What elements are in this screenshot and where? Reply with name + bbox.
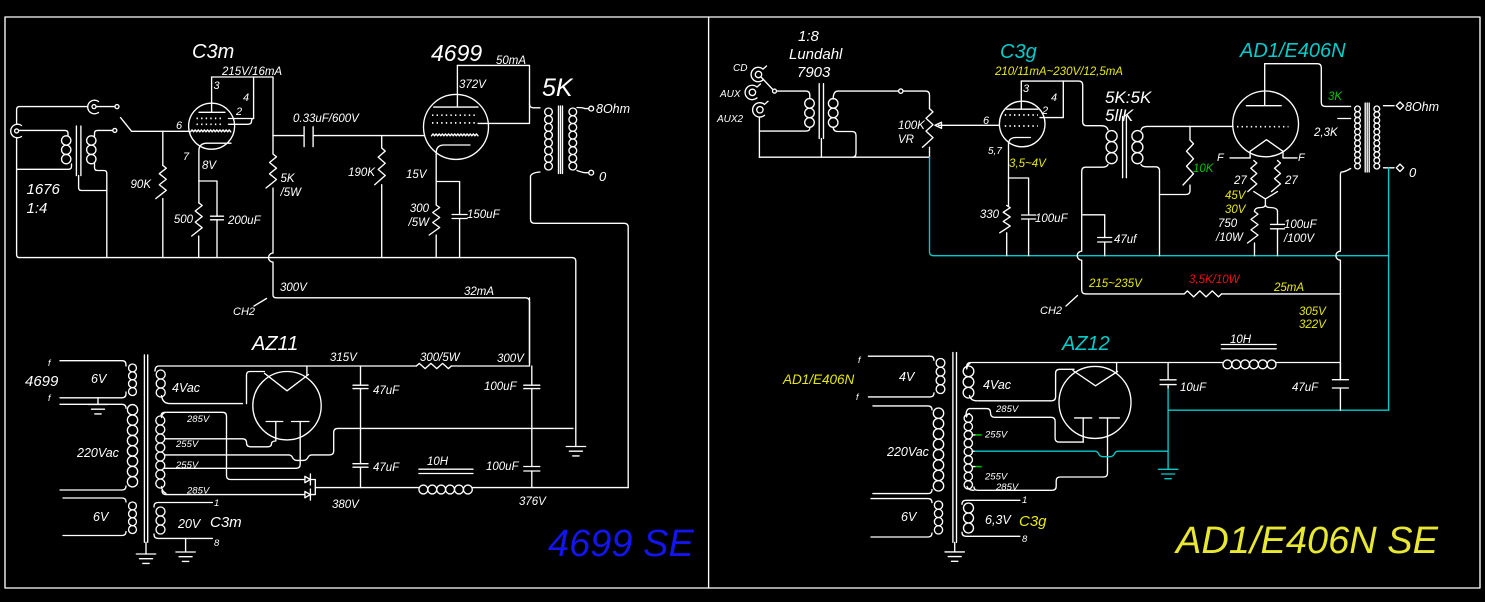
resistor R11 27 right (1272, 161, 1281, 192)
wire left jack down to ground rail (17, 138, 20, 258)
wire plate top run 215V (212, 76, 273, 78)
svg-text:220Vac: 220Vac (76, 446, 120, 460)
capacitor C11 10uF (1160, 363, 1176, 411)
choke L1 10H (419, 469, 473, 494)
svg-text:0: 0 (599, 169, 607, 184)
T2 secondary top lead (833, 91, 898, 99)
selector contact (773, 89, 777, 93)
terminal diamond 0 (1396, 164, 1403, 171)
capacitor C5 47uF lower (353, 428, 368, 487)
capacitor C2 200uF (199, 181, 224, 258)
wire plate to coupling cap (273, 135, 304, 137)
svg-text:100uF: 100uF (484, 381, 518, 393)
wire to VR top (903, 91, 930, 109)
AZ12 filament left leg from 4Vac (978, 369, 1074, 401)
svg-text:47uF: 47uF (373, 385, 400, 397)
tube V4 C3g envelope (999, 101, 1045, 147)
wire HT center tap to ground (hops stem) (166, 428, 573, 460)
svg-text:AZ11: AZ11 (251, 333, 298, 355)
svg-text:322V: 322V (1299, 319, 1327, 331)
svg-text:500: 500 (174, 214, 194, 226)
tube V5 filament (1250, 140, 1283, 158)
tube V1 plate (199, 77, 225, 112)
resistor R5 300/5W cathode (429, 205, 440, 258)
tube V1 screen lead pin 2 (229, 77, 254, 119)
T3 secondary top lead to AD1 grid (1141, 126, 1233, 130)
B+ rail after dropper (1222, 293, 1341, 295)
svg-text:CH2: CH2 (1040, 305, 1062, 317)
svg-text:8V: 8V (202, 160, 217, 172)
svg-text:215V/16mA: 215V/16mA (221, 66, 282, 78)
PT1 winding 220Vac primary (60, 404, 138, 490)
tube V2 control grid wavy (432, 134, 478, 136)
svg-text:255V: 255V (984, 430, 1009, 441)
svg-text:/5W: /5W (408, 217, 431, 229)
cyan node line right (1168, 409, 1389, 411)
choke L2 10H right (1221, 345, 1276, 369)
AZ11 anode1 stem (275, 422, 277, 439)
svg-text:C3g: C3g (1000, 41, 1037, 63)
ground symbol 20V winding (176, 538, 195, 561)
svg-text:210/11mA~230V/12,5mA: 210/11mA~230V/12,5mA (994, 66, 1123, 78)
B+ rail 215~235V (1086, 293, 1185, 295)
svg-text:3,5~4V: 3,5~4V (1009, 158, 1047, 170)
filament line left F (1217, 152, 1250, 164)
svg-text:AD1/E406N SE: AD1/E406N SE (1174, 520, 1439, 562)
T3 secondary winding (1132, 131, 1143, 142)
HT 285V top tap to diode1 (161, 412, 304, 479)
T2 secondary (828, 99, 838, 109)
svg-text:305V: 305V (1299, 306, 1327, 318)
svg-text:CD: CD (733, 63, 747, 74)
wire top jack to switch contact (96, 106, 114, 108)
svg-text:4699: 4699 (25, 373, 59, 390)
svg-text:255V: 255V (175, 460, 200, 471)
tube V2 4699 envelope (424, 94, 489, 159)
svg-text:10K: 10K (1193, 163, 1215, 175)
AZ11 filament left leg wiring from 4Vac (247, 372, 265, 404)
resistor R1 90K (156, 131, 167, 257)
tube V2 cathode (436, 145, 470, 205)
svg-text:376V: 376V (519, 496, 547, 508)
wire plate node down 5K/5W with hop over rail (269, 77, 277, 298)
AZ12 anode bars (1075, 417, 1120, 419)
resistor R2 500 cathode (192, 203, 203, 258)
svg-text:8: 8 (214, 538, 220, 549)
svg-text:1:4: 1:4 (27, 200, 48, 217)
svg-text:1: 1 (214, 498, 219, 509)
tube V2 plate (434, 65, 478, 107)
label CH2 right (1040, 296, 1078, 318)
svg-text:/5W: /5W (280, 187, 303, 199)
svg-text:10H: 10H (1230, 334, 1252, 346)
svg-text:AZ12: AZ12 (1061, 333, 1110, 355)
svg-text:5K:5K: 5K:5K (1105, 88, 1152, 107)
cyan feedback from secondary 0 (1388, 168, 1390, 410)
filament line right F (1283, 152, 1306, 164)
svg-text:8: 8 (1022, 534, 1028, 545)
svg-text:32mA: 32mA (464, 286, 494, 298)
resistor R9 3,5K/10W (1184, 291, 1221, 297)
VR wiper arrow (935, 122, 999, 128)
tube V2 grid dots (432, 115, 478, 123)
rail from AZ12 filament (B+ right) (967, 363, 1224, 369)
svg-text:0: 0 (1409, 165, 1417, 180)
svg-text:4699 SE: 4699 SE (548, 523, 694, 565)
capacitor C4 47uF upper (353, 366, 368, 428)
tube V5 plate (1246, 64, 1281, 106)
PT2 winding 4V (AD1 filament) (868, 356, 944, 397)
input jack AUX2 (753, 101, 768, 117)
svg-text:300V: 300V (280, 282, 308, 294)
PT1 winding 20V C3m heater (154, 503, 212, 539)
svg-text:3: 3 (214, 80, 221, 92)
svg-text:315V: 315V (330, 352, 358, 364)
AZ12 filament right leg (1116, 363, 1118, 373)
wire 255V tap2 to anode2 (166, 467, 296, 469)
svg-text:VR: VR (898, 134, 914, 146)
svg-text:AD1/E406N: AD1/E406N (782, 372, 855, 387)
transformer T1 secondary winding (87, 136, 96, 164)
svg-text:300/5W: 300/5W (420, 352, 461, 364)
svg-text:0.33uF/600V: 0.33uF/600V (293, 113, 360, 125)
PT2 winding 6V (871, 499, 943, 537)
svg-text:/100V: /100V (1283, 233, 1315, 245)
AZ11 filament right leg to rail (306, 366, 308, 376)
AZ11 anode2 stem (296, 422, 300, 469)
PT2 winding 6,3V (962, 500, 1020, 536)
svg-text:100uF: 100uF (486, 461, 520, 473)
svg-text:45V: 45V (1225, 190, 1247, 202)
svg-text:255V: 255V (175, 439, 200, 450)
tube V2 screen lead (478, 122, 530, 124)
svg-text:330: 330 (980, 209, 1000, 221)
capacitor C7 100uF lower (524, 428, 540, 487)
output transformer OPT1 core (559, 106, 563, 174)
output transformer OPT1 primary winding (545, 108, 553, 116)
capacitor C10 100uF/100V (1271, 212, 1285, 256)
AUX2 shield down (758, 118, 760, 158)
svg-text:4Vac: 4Vac (983, 378, 1012, 392)
svg-text:3,5K/10W: 3,5K/10W (1189, 274, 1241, 286)
svg-text:285V: 285V (995, 482, 1020, 493)
svg-text:8Ohm: 8Ohm (1405, 100, 1439, 114)
output transformer OPT1 5K primary lead top (530, 104, 541, 108)
PT2 winding 220Vac (873, 406, 944, 494)
label 300/5W (408, 203, 431, 229)
resistor R12 750/10W cathode (1248, 212, 1259, 256)
OPT2 core (1365, 103, 1369, 172)
power transformer PT2 core (953, 353, 957, 543)
svg-text:47uf: 47uf (1114, 234, 1138, 246)
svg-text:4Vac: 4Vac (172, 381, 201, 395)
svg-text:5,7: 5,7 (988, 146, 1002, 157)
input jack AUX (745, 84, 760, 100)
svg-text:AD1/E406N: AD1/E406N (1239, 40, 1346, 62)
svg-text:4: 4 (243, 92, 249, 104)
svg-text:AUX: AUX (719, 89, 741, 100)
wire core shield to secondary-bottom (79, 176, 107, 191)
rail after choke right (1276, 362, 1340, 364)
OPT1 secondary terminal 0 (589, 170, 594, 175)
svg-text:1676: 1676 (27, 181, 61, 198)
resistor R3 5K/5W (266, 154, 277, 188)
tube V4 screen lead pin2 (1040, 81, 1063, 118)
svg-text:27: 27 (1233, 175, 1247, 187)
wire contact to Lundahl primary (777, 91, 810, 98)
OPT2 primary bottom down to PSU (hops cyan) (1336, 169, 1351, 294)
svg-text:6V: 6V (93, 510, 110, 524)
cyan ground/feedback bus from VR (930, 157, 1389, 256)
svg-text:750: 750 (1218, 218, 1238, 230)
OPT1 secondary top lead (577, 108, 589, 109)
svg-text:20V: 20V (177, 517, 202, 531)
svg-text:5K: 5K (542, 74, 574, 102)
ground symbol main PSU (566, 428, 585, 456)
capacitor C8 100uF C3g cathode (1009, 178, 1036, 256)
green unused tap upper (975, 434, 982, 436)
tube V5 AD1/E406N envelope (1233, 91, 1299, 157)
tube V4 screen dots (1005, 115, 1038, 126)
AZ12 anode2 stem (1104, 418, 1108, 477)
svg-text:47uF: 47uF (373, 462, 400, 474)
input transformer T2 Lundahl primary (805, 99, 815, 109)
T3 primary winding (1106, 131, 1117, 142)
svg-text:190K: 190K (348, 167, 376, 179)
resistor R4 190K grid leak (375, 136, 386, 258)
input jack J2 (top RCA) (88, 100, 99, 114)
diode output junction to 380V rail (311, 480, 419, 495)
svg-text:10uF: 10uF (1180, 382, 1207, 394)
hum pot junction (1254, 192, 1278, 212)
switch upper contact (115, 105, 119, 109)
capacitor C9 47uf (1083, 215, 1112, 256)
ground rail main (left schematic) (20, 258, 576, 429)
resistor R7 330 cathode C3g (1000, 205, 1011, 255)
T3 core (1123, 117, 1127, 178)
HT 285V bottom tap to diode2 (162, 491, 304, 495)
OPT2 B+ vertical to filter (1339, 294, 1341, 380)
svg-text:4V: 4V (899, 370, 916, 384)
cyan ground stem (1167, 410, 1169, 469)
switch lever SW1 (121, 118, 132, 132)
PT2 winding 4Vac rectifier (963, 364, 977, 401)
input ground bus (759, 156, 929, 158)
svg-text:C3m: C3m (210, 514, 242, 531)
label 5K/5W (280, 173, 303, 199)
label CH2 left (233, 299, 267, 319)
resistor R6 300/5W dropper (416, 363, 451, 368)
tube V5 grid dots (1237, 126, 1289, 128)
wire AD1 plate top to OPT (1265, 64, 1351, 107)
tube V4 plate (1007, 81, 1038, 109)
rail 380V/376V after choke (472, 487, 628, 489)
svg-text:50mA: 50mA (496, 55, 526, 67)
svg-text:47uF: 47uF (1292, 382, 1319, 394)
svg-text:300: 300 (410, 203, 430, 215)
svg-text:150uF: 150uF (467, 209, 501, 221)
tube V1 control grid (wavy) (191, 130, 231, 132)
output transformer OPT1 secondary winding (569, 108, 577, 116)
svg-text:5llK: 5llK (1105, 106, 1134, 125)
wire coupling cap to grid 4699 (314, 135, 424, 137)
selector lever from CD (762, 78, 773, 90)
svg-text:8Ohm: 8Ohm (596, 102, 630, 116)
OPT1 primary bottom to 376V rail (531, 172, 629, 488)
svg-text:30V: 30V (1225, 204, 1247, 216)
svg-text:4699: 4699 (431, 40, 482, 66)
T2 core shield to ground bus (820, 139, 822, 158)
svg-text:Lundahl: Lundahl (789, 46, 843, 63)
green unused tap lower (975, 466, 982, 468)
rail 315V from rectifier (155, 366, 416, 371)
power transformer PT1 core (144, 355, 147, 542)
OPT2 secondary top lead (1384, 105, 1395, 107)
PT1 winding 4Vac rectifier filament (156, 370, 242, 404)
wire 255V tap1 to anode1 (with jog) (166, 438, 276, 447)
svg-text:220Vac: 220Vac (886, 445, 930, 459)
wire 285V bottom tap to anode2 (974, 477, 1104, 490)
svg-text:285V: 285V (995, 404, 1020, 415)
wire C3g plate top to interstage (1021, 81, 1101, 126)
T2 core (819, 84, 823, 139)
capacitor C3 150uF (436, 182, 467, 258)
wire plate top to OPT (457, 65, 529, 123)
capacitor C6 100uF upper (524, 366, 540, 428)
rectifier V6 AZ12 envelope (1059, 366, 1131, 438)
svg-text:90K: 90K (131, 179, 153, 191)
svg-text:3K: 3K (1328, 91, 1343, 103)
tube V1 C3m envelope (189, 103, 235, 149)
HT tap stubs right (972, 435, 975, 467)
OPT2 secondary bottom lead (1384, 167, 1395, 169)
T2 primary bottom to shield bus (759, 128, 809, 131)
label 100uF/100V (1283, 219, 1318, 245)
wire primary bottom return (17, 164, 72, 169)
wire shield top-left (17, 107, 88, 125)
junction circle secondary hot (899, 89, 903, 93)
svg-text:300V: 300V (497, 353, 525, 365)
input jack CD (751, 66, 766, 82)
capacitor C12 47uF right (1332, 363, 1348, 411)
wire secondary bottom down (95, 164, 107, 258)
PT1 winding 6V top (4699 filament) (60, 361, 136, 398)
svg-text:4: 4 (1051, 92, 1057, 104)
PT2 HT winding (964, 414, 974, 491)
AZ12 filament V (1073, 371, 1118, 386)
tube V4 cathode (1009, 138, 1031, 206)
switch lower contact (113, 128, 117, 132)
svg-text:6V: 6V (91, 372, 108, 386)
svg-text:200uF: 200uF (227, 215, 262, 227)
rail 315V after dropper (451, 298, 529, 366)
terminal diamond 8 Ohm (1396, 102, 1403, 109)
wire switch pole to grid C3m pin 6 (132, 130, 190, 132)
resistor R10 27 left (1248, 161, 1257, 192)
cyan HT center tap (hops stem) (974, 451, 1168, 457)
T3 secondary bottom lead (1141, 165, 1160, 256)
svg-text:372V: 372V (459, 79, 487, 91)
PT2 core ground (945, 542, 964, 561)
svg-text:7903: 7903 (797, 64, 831, 81)
wire 285V top tap to anode1 (966, 409, 1083, 443)
svg-text:CH2: CH2 (233, 306, 255, 318)
transformer T1 1676 primary winding (62, 136, 71, 164)
resistor R8 10K grid (1160, 126, 1194, 194)
svg-text:/10W: /10W (1215, 232, 1244, 244)
svg-text:1:8: 1:8 (798, 28, 820, 45)
PT1 winding 6V bottom (63, 498, 136, 536)
T2 secondary bottom lead (833, 127, 856, 157)
PT1 HT secondary winding (156, 413, 166, 494)
svg-text:6: 6 (983, 115, 990, 127)
capacitor C1 0.33uF/600V coupling (304, 127, 313, 147)
AZ12 anode1 stem (1082, 418, 1084, 442)
output transformer OPT2 primary winding (1355, 106, 1361, 112)
svg-text:6,3V: 6,3V (985, 513, 1012, 527)
svg-text:2,3K: 2,3K (1313, 127, 1339, 139)
svg-text:1: 1 (1022, 495, 1027, 506)
cyan ground symbol (1158, 469, 1177, 478)
svg-text:100uF: 100uF (1284, 219, 1318, 231)
svg-text:255V: 255V (984, 472, 1009, 483)
tube V1 screen grid dots (197, 118, 223, 124)
svg-text:AUX2: AUX2 (716, 114, 744, 125)
wire secondary top to switch contact (95, 130, 113, 136)
OPT1 secondary bottom lead (577, 171, 589, 173)
OPT2 primary tap 2,3K (1338, 118, 1351, 120)
T3 primary bottom to B+ (hops cyan) (1077, 165, 1108, 294)
HT tap stubs (165, 439, 167, 469)
OPT1 secondary terminal 8 Ohm (589, 106, 594, 111)
svg-text:6V: 6V (901, 510, 918, 524)
input jack J1 (left RCA) (11, 124, 22, 138)
svg-text:10H: 10H (427, 456, 449, 468)
OPT2 secondary winding (1374, 106, 1380, 112)
diode D1 (305, 474, 311, 485)
wire B+ 300V line (276, 298, 530, 363)
svg-text:285V: 285V (186, 414, 211, 425)
PT1 core ground (136, 542, 155, 563)
svg-text:6: 6 (176, 120, 183, 132)
svg-text:7: 7 (183, 151, 190, 163)
svg-text:5K: 5K (281, 173, 296, 185)
svg-text:285V: 285V (186, 486, 211, 497)
svg-text:100uF: 100uF (1035, 213, 1069, 225)
interstage transformer T3 primary top lead (1101, 126, 1108, 130)
svg-text:25mA: 25mA (1273, 282, 1304, 294)
transformer T1 core (76, 126, 81, 176)
potentiometer VR 100K (923, 109, 934, 158)
svg-text:100K: 100K (898, 120, 926, 132)
AZ11 filament V (265, 373, 309, 391)
tube V1 cathode (199, 143, 231, 203)
ground symbol 6V winding (88, 398, 107, 414)
svg-text:C3m: C3m (192, 41, 234, 63)
wire jack to transformer primary (19, 130, 68, 136)
svg-text:27: 27 (1284, 175, 1298, 187)
svg-text:215~235V: 215~235V (1088, 278, 1143, 290)
diode D2 (305, 489, 311, 500)
svg-text:2: 2 (235, 106, 242, 118)
AZ11 anode bars (266, 421, 309, 423)
svg-text:380V: 380V (332, 499, 360, 511)
svg-text:C3g: C3g (1019, 513, 1047, 530)
rectifier V3 AZ11 envelope (253, 372, 321, 440)
svg-text:2: 2 (1041, 105, 1048, 117)
svg-text:3: 3 (1023, 83, 1030, 95)
svg-text:15V: 15V (406, 169, 428, 181)
